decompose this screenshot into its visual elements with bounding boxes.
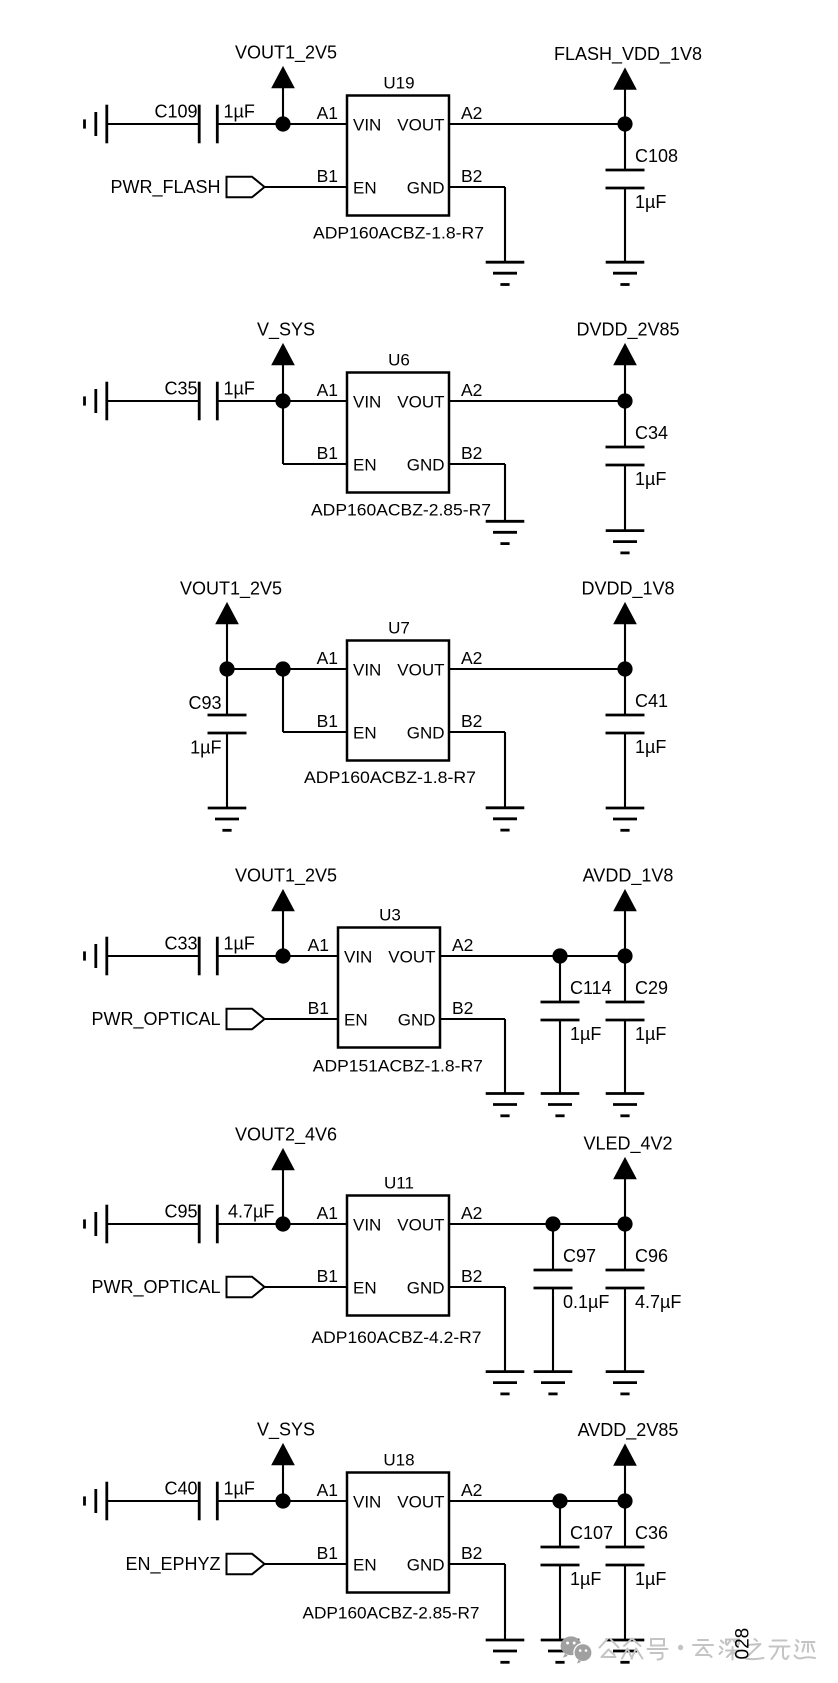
svg-text:A1: A1 [317,103,338,123]
svg-text:C108: C108 [635,146,678,166]
svg-text:ADP160ACBZ-2.85-R7: ADP160ACBZ-2.85-R7 [311,501,491,520]
ground (GND pin) [486,808,525,830]
svg-text:A2: A2 [461,1480,482,1500]
svg-text:B2: B2 [461,443,482,463]
capacitor C95 4.7µF [164,1201,274,1243]
svg-text:GND: GND [398,1011,436,1030]
svg-text:GND: GND [407,456,445,475]
svg-text:PWR_FLASH: PWR_FLASH [110,177,220,198]
svg-text:PWR_OPTICAL: PWR_OPTICAL [91,1277,220,1298]
wire [504,732,506,808]
svg-text:VOUT2_4V6: VOUT2_4V6 [235,1125,337,1146]
svg-text:4.7µF: 4.7µF [635,1292,681,1312]
svg-text:VOUT: VOUT [397,116,444,135]
ground [208,808,247,830]
svg-text:GND: GND [407,724,445,743]
wire [624,956,626,1002]
power flag AVDD_1V8 [583,866,674,957]
ground (rotated, input return) [85,1482,107,1521]
svg-text:A1: A1 [317,1480,338,1500]
svg-text:U6: U6 [388,351,410,370]
wire [624,1501,626,1547]
wire [624,401,626,447]
wire [449,1500,625,1502]
IC U6 (regulator) [317,351,483,493]
svg-text:VOUT1_2V5: VOUT1_2V5 [235,43,337,64]
wire [624,1565,626,1640]
junction node FLASH_VDD_1V8 [617,116,632,131]
junction node VIN [275,1493,290,1508]
wire [449,1563,505,1565]
wire [449,400,625,402]
wire [217,400,283,402]
wire [559,1020,561,1094]
wire [449,186,505,188]
svg-text:DVDD_2V85: DVDD_2V85 [576,320,679,341]
svg-text:VOUT1_2V5: VOUT1_2V5 [180,579,282,600]
ground [606,531,645,553]
wire [624,1020,626,1094]
power flag VOUT1_2V5 [235,866,337,957]
input flag PWR_OPTICAL [91,1277,264,1298]
svg-text:B1: B1 [317,1266,338,1286]
ground (GND pin) [486,521,525,543]
IC U18 (regulator) [317,1451,483,1593]
wire [504,464,506,521]
svg-text:A1: A1 [308,935,329,955]
svg-text:VIN: VIN [344,948,372,967]
svg-text:1µF: 1µF [190,738,221,758]
wire [504,187,506,262]
wire [624,1224,626,1270]
power flag V_SYS [257,320,315,402]
svg-text:GND: GND [407,1556,445,1575]
svg-text:VOUT: VOUT [397,1216,444,1235]
svg-text:1µF: 1µF [635,737,666,757]
svg-text:A2: A2 [461,648,482,668]
power flag VLED_4V2 [583,1134,672,1225]
power flag VOUT1_2V5 [235,43,337,125]
svg-text:C33: C33 [164,933,197,953]
svg-text:VIN: VIN [353,116,381,135]
svg-text:A1: A1 [317,380,338,400]
svg-text:VIN: VIN [353,661,381,680]
wire [440,1018,505,1020]
wire [265,1018,339,1020]
wire [449,668,625,670]
wire [226,669,228,715]
wire [265,186,348,188]
capacitor C109 1µF [154,101,254,143]
svg-text:A2: A2 [461,380,482,400]
junction node DVDD_2V85 [617,393,632,408]
IC U7 (regulator) [317,619,483,761]
svg-text:C109: C109 [154,101,197,121]
ground [606,1372,645,1394]
svg-text:C97: C97 [563,1246,596,1266]
svg-text:A1: A1 [317,1203,338,1223]
svg-text:A1: A1 [317,648,338,668]
wire [552,1224,554,1270]
wire [282,669,284,732]
capacitor C114 1µF [541,978,612,1044]
ground (GND pin) [486,1094,525,1116]
svg-text:1µF: 1µF [224,378,255,398]
wire [217,1500,283,1502]
svg-text:1µF: 1µF [570,1569,601,1589]
svg-text:C114: C114 [570,978,612,998]
power flag VOUT1_2V5 [180,579,282,670]
svg-text:A2: A2 [452,935,473,955]
svg-text:EN: EN [353,456,377,475]
svg-text:GND: GND [407,179,445,198]
junction node AVDD_1V8 [617,948,632,963]
wire [504,1564,506,1640]
wire [624,465,626,531]
svg-text:EN: EN [344,1011,368,1030]
wire [107,955,199,957]
junction node AVDD_2V85 [617,1493,632,1508]
svg-text:AVDD_1V8: AVDD_1V8 [583,866,674,887]
wire [559,956,561,1002]
ground [606,1094,645,1116]
wire [283,463,347,465]
power flag DVDD_1V8 [581,579,674,670]
junction node VIN [275,1216,290,1231]
svg-text:GND: GND [407,1279,445,1298]
junction node VIN [275,116,290,131]
IC U11 (regulator) [317,1174,483,1316]
svg-text:U3: U3 [379,906,401,925]
svg-text:VOUT: VOUT [388,948,435,967]
svg-text:VOUT1_2V5: VOUT1_2V5 [235,866,337,887]
capacitor C108 1µF [606,146,679,212]
capacitor C29 1µF [606,978,669,1044]
svg-text:EN: EN [353,1279,377,1298]
svg-text:PWR_OPTICAL: PWR_OPTICAL [91,1009,220,1030]
ground [534,1372,573,1394]
wire [107,400,199,402]
svg-text:C93: C93 [188,693,221,713]
svg-text:FLASH_VDD_1V8: FLASH_VDD_1V8 [554,44,702,65]
wire [283,1500,347,1502]
ground [606,808,645,830]
watermark wechat icon [561,1636,593,1663]
svg-text:B1: B1 [317,166,338,186]
svg-text:ADP160ACBZ-1.8-R7: ADP160ACBZ-1.8-R7 [313,224,484,243]
IC U3 (regulator) [308,906,474,1048]
wire [283,731,347,733]
junction node DVDD_1V8 [617,661,632,676]
svg-text:ADP160ACBZ-4.2-R7: ADP160ACBZ-4.2-R7 [312,1328,482,1347]
svg-text:C40: C40 [164,1478,197,1498]
wire [265,1286,348,1288]
capacitor C97 0.1µF [534,1246,610,1312]
wire [624,733,626,808]
wire [449,123,625,125]
svg-text:VOUT: VOUT [397,661,444,680]
svg-text:VOUT: VOUT [397,1493,444,1512]
wire [552,1288,554,1372]
svg-text:U19: U19 [383,74,414,93]
svg-text:A2: A2 [461,103,482,123]
input flag PWR_FLASH [110,177,264,198]
svg-text:028: 028 [733,1628,754,1660]
ground (GND pin) [486,1640,525,1662]
wire [107,1500,199,1502]
wire [440,955,625,957]
ground [606,1640,645,1662]
svg-text:V_SYS: V_SYS [257,1420,315,1441]
svg-text:1µF: 1µF [570,1024,601,1044]
svg-text:B2: B2 [461,166,482,186]
wire [217,955,283,957]
wire [504,1019,506,1094]
junction node VLED_4V2 [617,1216,632,1231]
svg-text:0.1µF: 0.1µF [563,1292,609,1312]
svg-text:EN: EN [353,179,377,198]
svg-text:C96: C96 [635,1246,668,1266]
svg-text:C107: C107 [570,1523,613,1543]
power flag AVDD_2V85 [578,1420,679,1501]
svg-text:1µF: 1µF [635,1024,666,1044]
wire [227,668,283,670]
capacitor C41 1µF [606,691,669,757]
wire [283,1223,347,1225]
wire [283,400,347,402]
junction node AVDD_1V8 [552,948,567,963]
capacitor C93 1µF [188,693,246,758]
svg-text:B1: B1 [317,1543,338,1563]
junction node VIN [275,948,290,963]
svg-text:4.7µF: 4.7µF [228,1201,274,1221]
ground [541,1640,580,1662]
svg-text:B1: B1 [317,711,338,731]
wire [504,1287,506,1372]
watermark text 公众号·云深之无迹 [600,1639,816,1660]
ground (rotated, input return) [85,105,107,144]
wire [449,1286,505,1288]
wire [624,1288,626,1372]
capacitor C96 4.7µF [606,1246,682,1312]
wire [283,123,347,125]
svg-text:EN: EN [353,724,377,743]
wire [624,188,626,262]
svg-text:VIN: VIN [353,1216,381,1235]
svg-text:C95: C95 [164,1201,197,1221]
wire [107,123,199,125]
power flag VOUT2_4V6 [235,1125,337,1225]
svg-text:C29: C29 [635,978,668,998]
svg-text:VIN: VIN [353,393,381,412]
capacitor C34 1µF [606,423,669,489]
wire [449,463,505,465]
ground [541,1094,580,1116]
svg-text:U18: U18 [383,1451,414,1470]
ground (rotated, input return) [85,1205,107,1244]
input flag PWR_OPTICAL [91,1009,264,1030]
svg-text:ADP160ACBZ-2.85-R7: ADP160ACBZ-2.85-R7 [303,1604,480,1623]
svg-text:B2: B2 [452,998,473,1018]
svg-text:EN: EN [353,1556,377,1575]
svg-text:C36: C36 [635,1523,668,1543]
wire [559,1501,561,1547]
junction node VIN [275,393,290,408]
wire [559,1565,561,1640]
junction node VIN [275,661,290,676]
IC U19 (regulator) [317,74,483,216]
svg-text:A2: A2 [461,1203,482,1223]
svg-text:VIN: VIN [353,1493,381,1512]
ground [606,262,645,284]
junction node VOUT1_2V5 [219,661,234,676]
wire [624,124,626,170]
svg-text:C35: C35 [164,378,197,398]
svg-text:DVDD_1V8: DVDD_1V8 [581,579,674,600]
svg-text:ADP160ACBZ-1.8-R7: ADP160ACBZ-1.8-R7 [304,768,476,787]
svg-text:B2: B2 [461,1543,482,1563]
svg-text:V_SYS: V_SYS [257,320,315,341]
svg-text:1µF: 1µF [224,1478,255,1498]
svg-text:U7: U7 [388,619,410,638]
svg-text:C41: C41 [635,691,668,711]
svg-text:ADP151ACBZ-1.8-R7: ADP151ACBZ-1.8-R7 [313,1056,483,1075]
wire [283,955,338,957]
junction node AVDD_2V85 [552,1493,567,1508]
svg-text:1µF: 1µF [635,469,666,489]
wire [624,669,626,715]
svg-text:C34: C34 [635,423,668,443]
ground (GND pin) [486,262,525,284]
wire [226,733,228,808]
wire [283,668,347,670]
wire [265,1563,348,1565]
svg-text:VOUT: VOUT [397,393,444,412]
wire [107,1223,199,1225]
ground (rotated, input return) [85,937,107,976]
capacitor C107 1µF [541,1523,614,1589]
svg-text:AVDD_2V85: AVDD_2V85 [578,1420,679,1441]
svg-text:B2: B2 [461,1266,482,1286]
wire [449,1223,625,1225]
svg-text:B1: B1 [308,998,329,1018]
svg-text:VLED_4V2: VLED_4V2 [583,1134,672,1155]
svg-text:U11: U11 [384,1174,414,1193]
capacitor C35 1µF [164,378,254,420]
wire [217,123,283,125]
svg-text:1µF: 1µF [224,933,255,953]
input flag EN_EPHYZ [125,1554,264,1575]
svg-text:1µF: 1µF [635,1569,666,1589]
wire [282,401,284,464]
svg-text:1µF: 1µF [224,101,255,121]
capacitor C33 1µF [164,933,254,975]
svg-text:1µF: 1µF [635,192,666,212]
ground (GND pin) [486,1372,525,1394]
wire [449,731,505,733]
svg-text:B1: B1 [317,443,338,463]
power flag DVDD_2V85 [576,320,679,402]
wire [217,1223,283,1225]
power flag V_SYS [257,1420,315,1502]
capacitor C40 1µF [164,1478,254,1520]
ground (rotated, input return) [85,382,107,421]
svg-text:B2: B2 [461,711,482,731]
junction node VLED_4V2 [545,1216,560,1231]
capacitor C36 1µF [606,1523,669,1589]
svg-text:EN_EPHYZ: EN_EPHYZ [125,1554,220,1575]
power flag FLASH_VDD_1V8 [554,44,702,124]
